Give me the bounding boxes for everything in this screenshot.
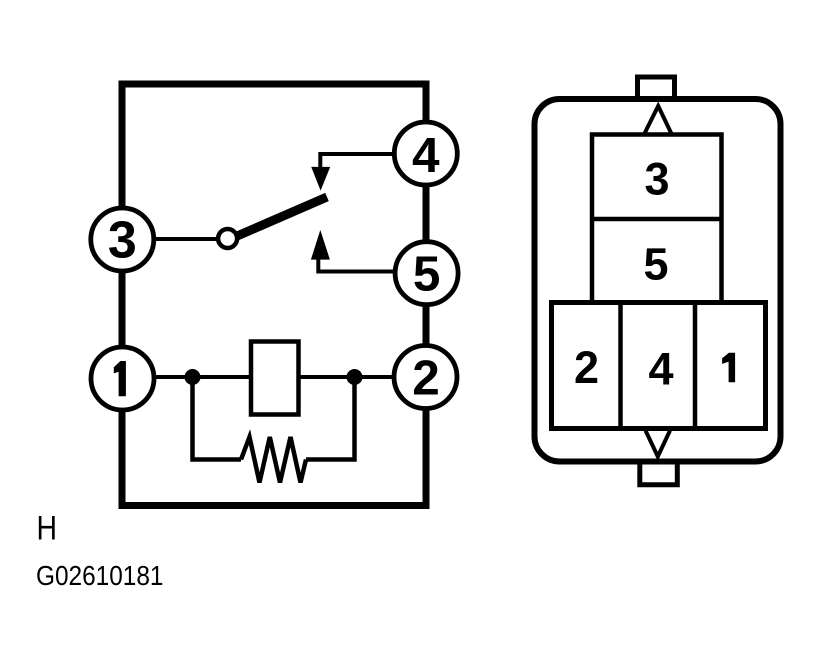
connector top tab — [638, 77, 675, 96]
svg-text:2: 2 — [574, 342, 599, 393]
svg-text:H: H — [37, 510, 58, 548]
svg-text:5: 5 — [413, 247, 441, 302]
switch pivot — [218, 229, 237, 248]
cavity 1 label — [722, 353, 735, 382]
wire coil to pin2 — [299, 375, 397, 379]
pin 2 terminal — [394, 346, 457, 409]
svg-text:5: 5 — [643, 238, 668, 289]
divider between cavity 2 and 4 — [618, 303, 623, 429]
divider between cavity 4 and 1 — [693, 303, 698, 429]
cavity column box (3/5) — [592, 135, 722, 305]
pin 5 terminal — [395, 242, 458, 305]
svg-text:G02610181: G02610181 — [36, 560, 164, 591]
junction dot right — [347, 369, 363, 385]
pin 3 terminal — [91, 208, 154, 271]
wire contact to pin 5 — [318, 259, 394, 272]
resistor R — [241, 437, 306, 483]
svg-text:3: 3 — [644, 153, 669, 204]
connector body — [535, 99, 781, 462]
resistor branch wire right — [306, 377, 355, 460]
svg-text:4: 4 — [648, 343, 673, 394]
junction dot left — [185, 369, 201, 385]
wire pin1 to coil — [152, 375, 251, 379]
NC contact arrow (pin 5) — [311, 230, 330, 260]
connector top index notch — [644, 106, 672, 135]
cavity row box (2/4/1) — [552, 303, 766, 429]
switch blade — [236, 197, 327, 237]
svg-text:2: 2 — [412, 351, 440, 406]
relay case outline — [122, 84, 426, 506]
NO contact arrow (pin 4) — [311, 167, 330, 191]
pin 4 terminal — [394, 122, 457, 185]
pin 1 terminal — [91, 347, 154, 410]
resistor branch wire left — [193, 377, 242, 460]
wire pin3 to switch pivot — [152, 237, 219, 241]
connector bottom index notch — [646, 431, 671, 457]
wire contact to pin 4 — [320, 154, 394, 168]
svg-text:3: 3 — [108, 212, 137, 270]
connector bottom tab — [640, 461, 678, 485]
svg-text:4: 4 — [412, 128, 440, 183]
divider between cavity 3 and 5 — [592, 217, 722, 222]
coil — [251, 342, 299, 415]
